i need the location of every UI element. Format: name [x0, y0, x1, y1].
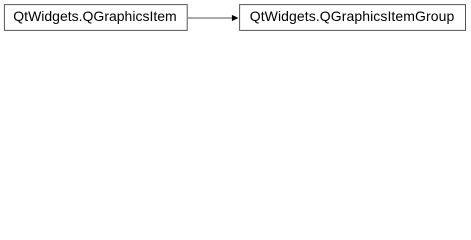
background	[0, 0, 471, 36]
class box QtWidgets.QGraphicsItemGroup	[240, 5, 466, 31]
class box QtWidgets.QGraphicsItem	[4, 5, 187, 31]
svg-text:QtWidgets.QGraphicsItemGroup: QtWidgets.QGraphicsItemGroup	[250, 8, 455, 24]
inheritance edge wire	[188, 17, 233, 19]
svg-text:QtWidgets.QGraphicsItem: QtWidgets.QGraphicsItem	[13, 8, 176, 24]
arrowhead	[232, 15, 239, 21]
